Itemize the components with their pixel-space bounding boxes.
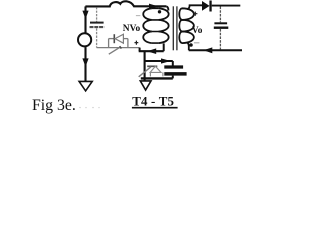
diode of T4: anode line (grey) [109, 38, 114, 40]
capacitor Co stem upper (grey) [219, 7, 221, 23]
svg-text:Fig 3e.: Fig 3e. [32, 97, 76, 114]
diode of T5: triangle pointing up (grey outline) [150, 66, 161, 72]
switch T4: lower branch line (grey, from cap stem to black node) [97, 47, 140, 49]
switch T4: right vertical of frame (grey) [127, 39, 129, 48]
current source (circle) [78, 33, 91, 46]
transformer core line 2 [176, 6, 178, 50]
polarity dot (secondary) [189, 43, 193, 47]
wire: lower horizontal to clamp cap [145, 60, 173, 62]
svg-text:NVo: NVo [123, 24, 141, 34]
diode D: cathode bar [209, 1, 211, 12]
underline for caption T4 - T5 [132, 107, 178, 109]
wire: lower return wire [141, 77, 173, 79]
transformer primary loop connectors [152, 8, 159, 43]
capacitor Co plate 1 [214, 22, 227, 24]
capacitor C2 plate 1 [164, 65, 183, 68]
transformer secondary loop 2 [179, 20, 194, 32]
wire: riser up to primary winding bottom [163, 43, 165, 51]
wire: secondary bottom exit [187, 43, 189, 51]
diode of T5: cathode bar [147, 65, 157, 67]
diode D: triangle [202, 1, 210, 11]
faint dots after caption [79, 107, 80, 108]
transformer secondary loop 1 [179, 8, 194, 20]
label + (primary side) [135, 41, 139, 45]
svg-text:T4 - T5: T4 - T5 [132, 95, 174, 109]
arrow: current direction left on node wire [147, 48, 156, 54]
arrow: current direction down, below source [82, 58, 88, 66]
diode of T4: triangle pointing left (grey outline) [115, 34, 123, 43]
arrow: current direction left on bottom right rail [203, 47, 212, 53]
wire: node wire y=51 to primary-bottom riser [139, 50, 164, 52]
capacitor C1 stem upper (grey dashed) [96, 7, 98, 22]
transformer core line 1 [172, 6, 174, 50]
wire: secondary top exit to rectifier [187, 5, 202, 9]
label + (secondary side) [193, 12, 197, 16]
label: faint minus above NVo [136, 15, 140, 17]
transformer primary loop 2 [143, 20, 168, 32]
wire: top right rail to output [212, 5, 241, 7]
capacitor C1 plate 2 (grey) [90, 26, 105, 28]
transformer secondary loop 3 [179, 32, 194, 44]
label: faint minus below Vo [194, 42, 200, 44]
capacitor Co plate 2 [214, 27, 229, 29]
diode of T4: right line (grey) [123, 38, 128, 40]
wire: node vertical down to ground branch [144, 51, 146, 81]
transformer primary loop 1 (left+right arcs) [143, 8, 168, 20]
transformer primary loop 3 [143, 32, 168, 44]
switch T4: left vertical of frame (grey) [108, 39, 110, 48]
polarity dot (primary) [158, 10, 161, 13]
switch T5: base ticks (grey) [150, 72, 163, 76]
capacitor C2 stem lower [172, 76, 174, 79]
switch T4: lever diagonal (grey) [109, 47, 121, 55]
ground: hollow arrowhead, center [140, 81, 151, 90]
wire: primary top entry corner [166, 6, 168, 10]
svg-text:Vo: Vo [192, 26, 203, 36]
arrow: current direction right, top rail [149, 4, 158, 10]
capacitor C2 plate 2 [164, 72, 186, 76]
wire: black jog from T4 frame down to node wire [139, 48, 141, 52]
capacitor C2 stem upper [172, 61, 174, 66]
diode of T4: cathode bar [113, 34, 115, 43]
capacitor C1 stem lower (grey) [96, 28, 98, 47]
wire: left rail below source [84, 47, 86, 81]
wire: top rail with input inductor humps [85, 1, 166, 6]
switch T4: contact tick (dark) [120, 46, 122, 48]
arrow: current direction right on lower wire [161, 58, 171, 63]
wire: left rail vertical (top section) [84, 6, 86, 33]
wire: bottom right rail [189, 49, 242, 51]
ground: hollow arrowhead, left [79, 81, 92, 91]
capacitor Co stem lower (grey) [219, 29, 221, 49]
switch T5: lever diagonal (grey) [139, 67, 151, 77]
capacitor C1 plate 1 [90, 22, 104, 24]
arrow: current direction down, top of left rail [82, 11, 88, 19]
